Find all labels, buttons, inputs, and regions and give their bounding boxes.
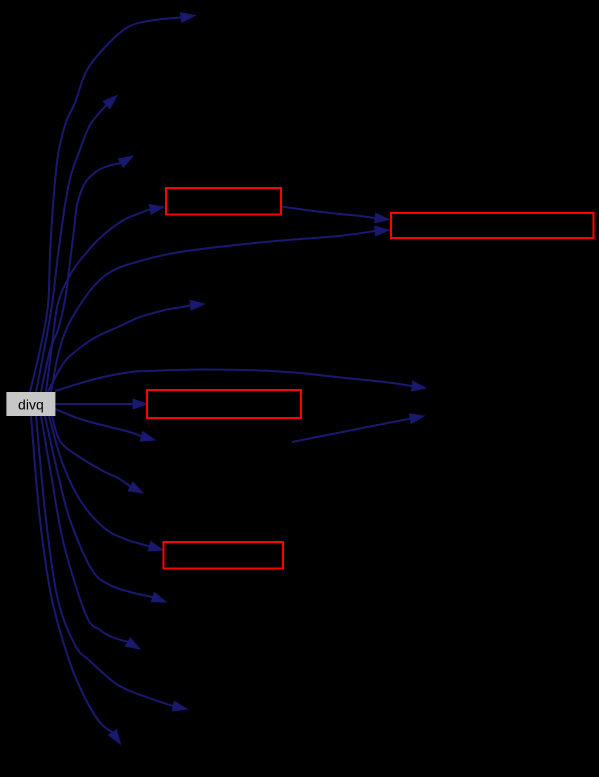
box D (red node) — [164, 542, 284, 569]
edge divq to node 9 — [55, 409, 155, 441]
edge box A to box B — [281, 207, 389, 223]
edge divq to box D — [49, 416, 163, 551]
edge divq to box C — [55, 399, 147, 409]
node divq — [6, 392, 55, 416]
edge divq to node 10 — [52, 416, 143, 493]
edge divq to node 13 — [41, 416, 140, 649]
edge divq to node 7 — [55, 369, 426, 391]
edge divq to node 6 — [48, 300, 205, 392]
box B (red node) — [391, 213, 594, 238]
svg-text:divq: divq — [18, 397, 44, 413]
edge node to node 17 — [292, 414, 424, 442]
edge divq to node 2 — [36, 96, 117, 393]
box A (red node) — [166, 188, 281, 215]
edge divq to node 15 — [31, 416, 121, 744]
edge divq to node 12 — [45, 416, 166, 602]
edge divq to node 1 — [30, 13, 195, 392]
box C (red node) — [147, 390, 301, 418]
edge divq to box B — [51, 226, 389, 392]
edge divq to node 14 — [36, 416, 187, 711]
edge divq to box A — [46, 205, 164, 392]
edge divq to node 3 — [41, 156, 133, 392]
